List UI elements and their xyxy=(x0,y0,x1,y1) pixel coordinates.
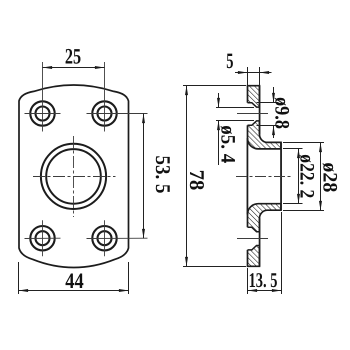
dim 78 arrows xyxy=(185,86,188,96)
hole top-right centerline horizontal (ext of dim 53.5) xyxy=(87,113,148,115)
hole bottom-left centerline vertical xyxy=(42,220,44,256)
side view main centerline xyxy=(236,176,292,178)
hole bottom-left centerline horizontal xyxy=(25,237,61,239)
plate left face line across bore xyxy=(247,138,249,214)
dim 44 ext line right xyxy=(128,262,130,294)
dim ø22.2 arrows xyxy=(297,149,300,159)
dim 53.5 top arrow xyxy=(142,114,145,124)
dim 44 left arrow xyxy=(19,289,29,292)
dim 78 line xyxy=(186,86,188,267)
dim 44 ext line left xyxy=(18,262,20,294)
dim 5 left arrow (outside, pointing right) xyxy=(238,71,248,74)
hole bottom-right centerline horizontal (ext of dim 53.5) xyxy=(87,237,148,239)
center hole centerline vertical xyxy=(73,136,75,217)
dim 13.5 arrows xyxy=(248,289,258,292)
dim 13.5 line xyxy=(248,290,282,292)
svg-text:ø5. 4: ø5. 4 xyxy=(217,125,239,163)
hole top-left centerline vertical (ext line of dim 25) xyxy=(42,62,44,132)
dim ø9.8 line lower with arrow up xyxy=(273,126,275,139)
svg-text:ø28: ø28 xyxy=(319,162,341,192)
dim 78 ext lines xyxy=(183,85,246,87)
top hole edges xyxy=(248,103,260,126)
hole top-left: counterbore circle xyxy=(30,101,54,125)
svg-text:13. 5: 13. 5 xyxy=(249,268,278,292)
dim ø5.4 ext lines xyxy=(216,107,254,109)
bottom hole centerline xyxy=(237,238,268,240)
dim 5 ext lines xyxy=(247,67,249,86)
svg-text:78: 78 xyxy=(185,170,209,191)
bore flare cavity (white fill) xyxy=(248,138,282,214)
hole top-right centerline vertical (ext line of dim 25) xyxy=(104,62,106,132)
svg-text:25: 25 xyxy=(65,43,81,68)
svg-text:5: 5 xyxy=(226,48,233,73)
hole top-right: counterbore circle xyxy=(92,101,116,125)
dim ø28 line xyxy=(320,143,322,211)
hole bottom-right: inner circle xyxy=(98,231,112,245)
hatch region (section material) xyxy=(248,86,282,267)
plate right face line across top hole xyxy=(259,86,261,135)
dim ø28 arrows xyxy=(319,143,322,153)
dim 25 right arrow xyxy=(95,66,105,69)
center hole outer circle xyxy=(41,144,106,209)
dim ø5.4 line lower with arrow up xyxy=(218,121,220,166)
bore flare edges xyxy=(248,138,282,214)
dim ø22.2 line xyxy=(298,149,300,204)
hole top-left centerline horizontal xyxy=(25,113,61,115)
dim ø9.8 ext lines xyxy=(257,102,279,104)
dim 25 left arrow xyxy=(43,66,53,69)
dim 53.5 bottom arrow xyxy=(142,229,145,239)
plate outline xyxy=(19,85,129,268)
top countersunk hole (white) xyxy=(246,103,259,126)
svg-text:ø22. 2: ø22. 2 xyxy=(296,154,318,198)
dim 5 line xyxy=(235,72,272,74)
dim 5 right arrow (outside, pointing left) xyxy=(260,71,270,74)
svg-text:53. 5: 53. 5 xyxy=(151,156,175,194)
boss front face line across bore xyxy=(280,142,282,210)
plate right face line across bottom hole xyxy=(259,218,261,266)
dim ø5.4 line upper with arrow down xyxy=(218,93,220,108)
hole top-left: inner circle xyxy=(36,107,50,121)
svg-text:44: 44 xyxy=(65,268,83,293)
dim 53.5 line xyxy=(143,114,145,239)
center hole centerline horizontal xyxy=(33,176,116,178)
dim ø9.8 line upper with arrow down xyxy=(273,87,275,103)
hole bottom-right centerline vertical xyxy=(104,220,106,256)
dim ø22.2 ext lines xyxy=(283,148,303,150)
hole bottom-left: counterbore circle xyxy=(30,226,54,250)
bottom countersunk hole (white) xyxy=(246,227,259,250)
dim 44 right arrow xyxy=(119,289,129,292)
dim 13.5 ext lines xyxy=(247,268,249,294)
hole bottom-left: inner circle xyxy=(36,231,50,245)
hole bottom-right: counterbore circle xyxy=(92,226,116,250)
dim ø28 ext lines xyxy=(283,142,324,144)
bottom hole edges xyxy=(248,227,260,250)
top hole centerline xyxy=(237,113,268,115)
svg-text:ø9.8: ø9.8 xyxy=(271,97,293,129)
dim 44 line xyxy=(19,290,129,292)
center hole inner circle xyxy=(46,149,101,204)
dim 25 line xyxy=(43,67,105,69)
section body silhouette xyxy=(248,86,282,267)
hole top-right: inner circle xyxy=(98,107,112,121)
